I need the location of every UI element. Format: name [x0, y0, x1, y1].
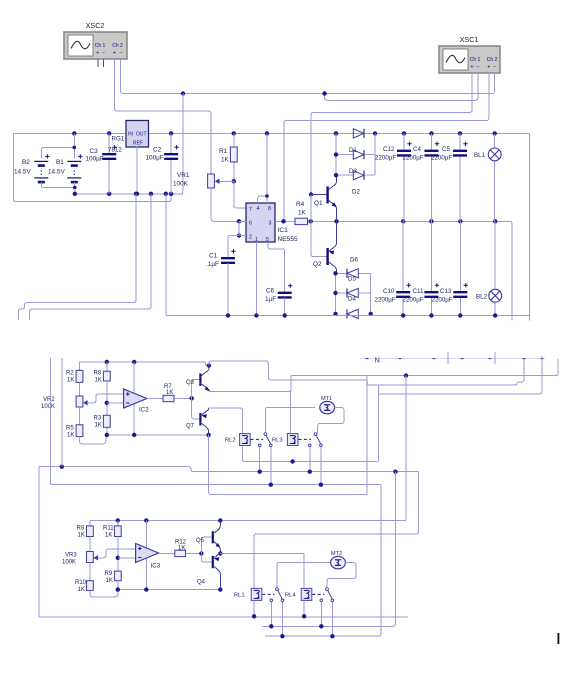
- switch RL1 contacts: [276, 588, 279, 591]
- svg-text:1K: 1K: [95, 378, 102, 384]
- lamp BL1: [494, 133, 496, 148]
- svg-text:1K: 1K: [78, 533, 85, 539]
- capacitor C3 100uF: [108, 133, 110, 154]
- resistor R9 1K: [117, 537, 119, 572]
- voltage regulator RG1 7812: [126, 121, 149, 148]
- wire VR2 wiper to IC2 plus input: [83, 400, 88, 405]
- resistor R3 1K: [106, 381, 108, 415]
- wire outer loop from rail A left end: [14, 133, 172, 201]
- svg-text:1K: 1K: [178, 545, 185, 551]
- svg-text:Ch 2: Ch 2: [487, 57, 498, 63]
- dashed link RL2: [251, 438, 264, 440]
- wire riser coil-bottom bus to y=385: [377, 385, 379, 462]
- wire output rail B y=221: [275, 220, 295, 222]
- node Q3 collector: [207, 363, 211, 367]
- node ground rail lower-rail riser: [164, 192, 168, 196]
- wire left contact bus y=471.7 with west jog: [39, 467, 418, 472]
- capacitor C1 0.1uF: [221, 258, 235, 263]
- diode D1: [353, 129, 364, 138]
- svg-text:1K: 1K: [166, 390, 173, 396]
- svg-text:R2: R2: [66, 371, 74, 377]
- svg-text:R8: R8: [94, 371, 102, 377]
- svg-text:VR3: VR3: [65, 553, 77, 559]
- node block1 bottom bus feedback: [132, 433, 136, 437]
- wire right bus drop x381 to block2 right-contact bus: [265, 485, 381, 637]
- wire battery bottom bracket: [41, 182, 75, 194]
- svg-text:RL2: RL2: [225, 438, 236, 444]
- node ground rail C3: [107, 192, 111, 196]
- node bottom rail C6: [283, 313, 287, 317]
- svg-text:IC2: IC2: [139, 407, 149, 414]
- svg-text:IC3: IC3: [151, 563, 161, 570]
- svg-text:R7: R7: [164, 384, 172, 390]
- svg-text:C13: C13: [440, 288, 452, 295]
- wire bus y=385 east: [368, 359, 524, 385]
- svg-text:Q1: Q1: [314, 200, 323, 207]
- wire RL4 right contact drop: [331, 602, 333, 636]
- svg-text:.1µF: .1µF: [206, 261, 219, 268]
- svg-text:+: +: [96, 51, 99, 57]
- wire XSC1 Ch1- jog to ground bus: [325, 73, 478, 100]
- svg-text:+: +: [487, 65, 490, 71]
- wire RL1 pole riser to MT2: [277, 562, 332, 587]
- node block2 rail R11: [116, 518, 120, 522]
- resistor R12 1K: [159, 552, 175, 554]
- wire scope ground drop to ground rail: [182, 94, 185, 194]
- svg-text:NE555: NE555: [278, 236, 298, 243]
- svg-text:2: 2: [249, 235, 252, 241]
- node seam tick: [461, 358, 464, 360]
- svg-text:BL2: BL2: [476, 294, 488, 301]
- node block2 rail feedback: [144, 518, 148, 522]
- transistor Q5: [201, 537, 212, 553]
- switch RL3 contacts: [314, 433, 317, 436]
- svg-text:100µF: 100µF: [86, 156, 104, 163]
- wire Q7 collector down to relay frame bus: [209, 435, 367, 495]
- transistor Q4: [201, 553, 212, 562]
- svg-text:2200µF: 2200µF: [403, 297, 424, 304]
- svg-text:R11: R11: [103, 526, 114, 532]
- resistor R11 1K: [117, 521, 119, 526]
- wire RL4 coil bottom to bottom bus: [303, 600, 305, 616]
- wire rail A positive supply y=133: [14, 132, 127, 134]
- wire upper ladder left tie: [335, 133, 337, 175]
- wire RL2 coil bottom to coil bus: [243, 446, 378, 462]
- node bottom rail C11: [429, 313, 433, 317]
- svg-text:OUT: OUT: [136, 132, 147, 138]
- node seam tick: [399, 358, 402, 360]
- svg-text:−: −: [102, 51, 105, 57]
- node block2 bottom bus col B: [116, 587, 120, 591]
- node RL3 coil bottom on bus: [290, 459, 294, 463]
- svg-text:7812: 7812: [108, 147, 122, 154]
- wire outer margin corner down to bottom bus: [38, 467, 40, 617]
- motor MT1: [320, 401, 335, 413]
- svg-text:100µF: 100µF: [146, 155, 164, 162]
- resistor R8b 1K: [89, 521, 91, 526]
- node ground rail P2 drop: [149, 192, 153, 196]
- wire upper ladder right tie: [374, 133, 376, 175]
- node 555 pin2: [237, 233, 241, 237]
- wire seam stub x495: [494, 352, 496, 364]
- svg-text:−: −: [476, 65, 479, 71]
- svg-text:D4: D4: [348, 296, 356, 303]
- svg-text:C1: C1: [209, 253, 218, 260]
- capacitor C12 2200uF: [403, 133, 405, 150]
- node rail A battery: [72, 131, 76, 135]
- node rail A C3: [107, 131, 111, 135]
- svg-text:R1: R1: [219, 148, 228, 155]
- capacitor C2 100uF: [170, 133, 172, 154]
- wire bus y=385 west hook: [367, 380, 368, 385]
- node contact bus x395: [393, 470, 397, 474]
- node right bus RL3: [319, 483, 323, 487]
- svg-text:C12: C12: [383, 146, 395, 153]
- node seam tick: [366, 358, 369, 360]
- node margin riser on contact bus: [60, 465, 64, 469]
- op-amp IC2: [124, 389, 147, 408]
- dashed link RL1: [262, 593, 274, 595]
- node rail A C2: [169, 131, 173, 135]
- relay coil RL4: [301, 588, 312, 600]
- wire block2 col A bottom: [90, 590, 118, 597]
- svg-text:R9: R9: [105, 571, 113, 577]
- wire bottom rail ground y=315.5: [166, 315, 530, 317]
- resistor R1 1K: [233, 133, 235, 147]
- svg-text:−: −: [493, 65, 496, 71]
- svg-text:B1: B1: [56, 159, 64, 166]
- XSC2 pin stubs Ch1: [97, 59, 99, 67]
- svg-text:2200µF: 2200µF: [432, 297, 453, 304]
- node block2 left bus RL4: [319, 624, 323, 628]
- diode D5: [336, 292, 348, 294]
- svg-text:Q7: Q7: [186, 424, 195, 430]
- svg-text:D5: D5: [348, 276, 356, 283]
- node bottom bus RL4 coil: [302, 614, 306, 618]
- wire ground rail y=194: [75, 193, 183, 195]
- svg-text:6: 6: [249, 221, 252, 227]
- wire 555 pin7 to R1 bottom node: [234, 181, 246, 208]
- svg-text:Q4: Q4: [197, 580, 206, 586]
- svg-text:C3: C3: [90, 148, 99, 155]
- node block2 left-contact bus RL1: [269, 624, 273, 628]
- wire RL4 coil top riser to emitter bus: [303, 553, 305, 588]
- diode D3 row: [336, 154, 353, 156]
- node rail A 555 supply: [265, 131, 269, 135]
- svg-text:C11: C11: [413, 288, 424, 295]
- wire block1 col A bottom: [80, 435, 106, 444]
- node rail B C11: [429, 219, 433, 223]
- dashed link RL3: [299, 438, 312, 440]
- node rail A diode ladder right: [373, 131, 377, 135]
- node R1 bottom / VR1 wiper: [232, 179, 236, 183]
- op-amp IC3: [136, 544, 159, 563]
- svg-text:XSC1: XSC1: [460, 35, 479, 44]
- timer IC1 NE555: [246, 203, 275, 242]
- wire VR3 wiper to IC3 plus input: [93, 555, 98, 560]
- resistor R7 1K: [147, 398, 163, 400]
- node R4 output / base node: [309, 219, 313, 223]
- node block1 rail feedback col: [132, 360, 136, 364]
- node seam tick: [541, 358, 544, 360]
- node R7 output base node: [190, 396, 194, 400]
- wire RL2 left contact drop: [259, 447, 261, 472]
- svg-text:1K: 1K: [95, 423, 102, 429]
- wire RL2 right contact drop: [270, 447, 272, 485]
- svg-text:7: 7: [249, 207, 252, 213]
- svg-text:2200µF: 2200µF: [375, 297, 396, 304]
- wire bottom rail riser to ground rail: [165, 194, 167, 316]
- wire RG1 REF pin to ground: [136, 146, 138, 194]
- node on ground bus at x324: [322, 91, 326, 95]
- node R8-R3 junction to IC2 minus input: [105, 401, 109, 405]
- wire 555 pins 4+8 to rail A: [258, 196, 267, 203]
- wire right contact bus y=484.7: [50, 484, 381, 486]
- node emitters junction: [334, 219, 338, 223]
- wire RL2 pole riser to MT1: [265, 407, 314, 432]
- svg-text:BL1: BL1: [474, 152, 486, 159]
- node bottom bus RL1 coil: [252, 614, 256, 618]
- resistor R2 1K: [79, 362, 81, 370]
- svg-text:1K: 1K: [67, 378, 74, 384]
- svg-text:2200µF: 2200µF: [431, 155, 452, 162]
- svg-text:1K: 1K: [221, 157, 230, 164]
- node block1 bottom bus Q7 collector: [206, 433, 210, 437]
- node bottom rail C10: [401, 313, 405, 317]
- svg-text:Ch 1: Ch 1: [470, 57, 481, 63]
- oscilloscope XSC1: [439, 46, 500, 73]
- node bottom rail C1: [226, 313, 230, 317]
- node output bus x406: [404, 373, 408, 377]
- node R12 output base node: [199, 551, 203, 555]
- dashed link RL4: [312, 593, 324, 595]
- svg-text:100K: 100K: [173, 181, 189, 188]
- svg-text:1K: 1K: [298, 210, 307, 217]
- wire Q3 collector bus east: [209, 361, 367, 380]
- svg-text:RG1: RG1: [112, 136, 125, 143]
- svg-text:IC1: IC1: [278, 227, 289, 234]
- svg-text:R4: R4: [296, 201, 305, 208]
- switch RL4 contacts: [326, 588, 329, 591]
- svg-text:MT1: MT1: [321, 396, 332, 402]
- node Q5-Q4 emitters: [218, 551, 222, 555]
- svg-text:Ch 1: Ch 1: [95, 43, 106, 49]
- node block1 rail R8: [105, 360, 109, 364]
- svg-text:100K: 100K: [62, 560, 76, 566]
- potentiometer VR2 100K: [79, 382, 81, 396]
- node seam tick: [489, 358, 492, 360]
- node bottom rail pin1: [254, 313, 258, 317]
- wire bus y=393.9 east: [378, 356, 542, 394]
- wire RL3 left contact drop: [309, 447, 311, 472]
- node 555 pin6: [237, 219, 241, 223]
- battery B2: [41, 133, 74, 158]
- svg-text:−: −: [119, 51, 122, 57]
- wire RL3 right contact drop: [320, 447, 322, 485]
- wire RL1 coil top feed loop: [254, 472, 418, 589]
- svg-text:1K: 1K: [78, 587, 85, 593]
- capacitor C13 2200uF: [459, 221, 461, 291]
- wire XSC2 Ch2+ to VR1 top: [115, 59, 212, 174]
- wire pin6-pin2 tie: [239, 220, 246, 222]
- wire XSC2 Ch2- to ground bus: [121, 59, 495, 94]
- wire pin2 to C1: [228, 235, 239, 257]
- node rail A C12: [402, 131, 406, 135]
- svg-text:XSC2: XSC2: [86, 21, 105, 30]
- node block2 right bus RL4: [330, 634, 334, 638]
- wire block1 bottom inner bus: [107, 434, 209, 436]
- wire seam stub x448: [447, 352, 449, 364]
- wire block2 feedback column: [145, 521, 147, 590]
- svg-text:N: N: [375, 356, 380, 365]
- svg-text:VR2: VR2: [43, 397, 55, 403]
- svg-text:3: 3: [269, 221, 272, 227]
- svg-text:D2: D2: [352, 189, 360, 196]
- node seam tick: [433, 358, 436, 360]
- node seam tick: [523, 358, 526, 360]
- diode D2 row: [336, 174, 353, 176]
- wire block2 emitter bus east: [220, 552, 304, 554]
- svg-text:MT2: MT2: [331, 551, 342, 557]
- wire block1 top rail: [80, 362, 209, 366]
- wire vertical from output bus to block2 rail: [405, 376, 407, 521]
- wire lower ladder right tie: [370, 273, 372, 314]
- relay coil RL1: [251, 588, 262, 600]
- wire bottom bus y=617: [39, 616, 408, 618]
- svg-text:1K: 1K: [105, 533, 112, 539]
- svg-text:C5: C5: [442, 146, 450, 153]
- svg-text:R3: R3: [94, 416, 102, 422]
- capacitor C10 2200uF: [402, 221, 404, 291]
- svg-text:1K: 1K: [67, 433, 74, 439]
- svg-text:IN: IN: [128, 132, 133, 138]
- svg-text:C2: C2: [153, 147, 162, 154]
- diode D4: [347, 309, 358, 318]
- svg-text:+: +: [113, 51, 116, 57]
- svg-text:C4: C4: [413, 146, 421, 153]
- lamp BL2: [494, 221, 496, 289]
- svg-text:14.5V: 14.5V: [48, 169, 65, 176]
- node rail A BL1: [493, 131, 497, 135]
- oscilloscope XSC2: [64, 32, 127, 59]
- wire relay frame riser x=366.8: [366, 376, 368, 495]
- svg-text:D6: D6: [350, 257, 358, 264]
- svg-text:RL4: RL4: [285, 593, 296, 599]
- battery B1: [73, 147, 75, 158]
- node cursor artifact: [558, 633, 560, 644]
- node block2 bottom bus Q4 collector: [218, 587, 222, 591]
- node block2 right-contact bus RL1: [280, 634, 284, 638]
- svg-text:1K: 1K: [106, 578, 113, 584]
- node rail B BL2: [493, 219, 497, 223]
- node rail B C13: [458, 219, 462, 223]
- svg-text:2200µF: 2200µF: [375, 155, 396, 162]
- resistor R10 1K: [87, 581, 94, 591]
- wire XSC1 Ch1+ to Q1 base node: [311, 73, 472, 195]
- node contact bus RL2: [258, 470, 262, 474]
- wire MT2 east loop to RL4 pole: [327, 563, 356, 588]
- node block1 bottom bus col B: [105, 433, 109, 437]
- node bottom rail C13: [458, 313, 462, 317]
- svg-text:RL3: RL3: [272, 438, 283, 444]
- wire P2 ground loop cut at seam: [30, 194, 151, 320]
- wire collector jog connector: [366, 376, 368, 380]
- wire 555 pin5 to C6: [268, 242, 285, 292]
- svg-text:100K: 100K: [41, 404, 55, 410]
- potentiometer VR3 100K: [89, 537, 91, 552]
- svg-text:RL1: RL1: [234, 593, 245, 599]
- svg-text:Ch 2: Ch 2: [112, 43, 123, 49]
- diode D6: [336, 272, 348, 274]
- node block2 bottom bus feedback: [144, 587, 148, 591]
- node rail A diode ladder left: [334, 131, 338, 135]
- wire margin riser x=61.8 from seam: [61, 358, 63, 467]
- wire block1 feedback column: [133, 362, 135, 435]
- node rail B C10: [401, 219, 405, 223]
- svg-text:Q5: Q5: [196, 538, 205, 544]
- wire XSC1 Ch2+ to R4 input node: [284, 73, 489, 221]
- svg-text:+: +: [470, 65, 473, 71]
- transistor Q7: [192, 398, 200, 419]
- wire contact-bus drop x395 to block2 left-contact bus: [262, 472, 396, 627]
- switch RL2 contacts: [264, 433, 267, 436]
- capacitor C11 2200uF: [430, 221, 432, 291]
- node ground rail battery: [73, 192, 77, 196]
- svg-text:Q3: Q3: [186, 380, 195, 386]
- node rail A C5: [458, 131, 462, 135]
- wire RL1 left contact drop: [270, 602, 272, 627]
- transistor Q2: [311, 221, 327, 256]
- svg-text:8: 8: [268, 206, 271, 212]
- relay coil RL2: [240, 434, 251, 446]
- capacitor C6 1uF: [278, 293, 292, 298]
- wire margin riser x=50.3 from seam: [49, 358, 51, 485]
- node ground rail C2: [169, 192, 173, 196]
- svg-text:Q2: Q2: [313, 261, 322, 268]
- transistor Q3: [192, 380, 200, 399]
- wire block2 top rail: [90, 520, 406, 522]
- node on ground bus at x183: [181, 91, 185, 95]
- svg-text:14.5V: 14.5V: [14, 169, 31, 176]
- node R4 input: [281, 219, 285, 223]
- node ground rail P1 drop: [134, 192, 138, 196]
- wire rail A right end drop: [529, 133, 531, 320]
- node bottom rail BL2: [493, 313, 497, 317]
- resistor R4 1K: [295, 218, 308, 224]
- transistor Q1: [309, 192, 313, 196]
- potentiometer VR1 100K: [208, 174, 215, 188]
- wire RL4 left contact drop: [320, 602, 322, 627]
- svg-text:C10: C10: [383, 288, 395, 295]
- svg-text:2200µF: 2200µF: [403, 155, 424, 162]
- node contact bus RL3: [308, 470, 312, 474]
- node right bus RL2: [269, 483, 273, 487]
- resistor R5 1K: [76, 425, 83, 437]
- svg-text:VR1: VR1: [177, 172, 190, 179]
- wire RL3 coil top riser to output bus: [289, 392, 291, 434]
- node rail A R1: [232, 131, 236, 135]
- wire block2 inner ground bus: [118, 589, 221, 591]
- svg-text:R5: R5: [66, 426, 74, 432]
- svg-text:1µF: 1µF: [265, 296, 276, 303]
- wire Q3 emitter east riser: [209, 376, 291, 392]
- svg-text:REF: REF: [133, 141, 143, 147]
- capacitor C5 2200uF: [459, 133, 461, 150]
- wire long output bus y=375.6: [291, 359, 558, 376]
- capacitor C4 2200uF: [431, 133, 433, 150]
- wire lower ladder left tie / Q2 collector: [335, 273, 337, 314]
- svg-text:R10: R10: [75, 580, 87, 586]
